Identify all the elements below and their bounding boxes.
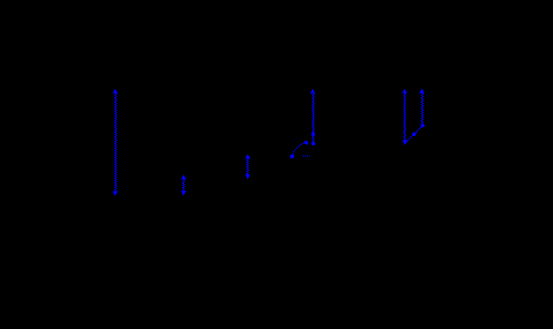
dotted tick row	[303, 155, 310, 157]
arrow A long vertical double-headed	[113, 89, 118, 196]
curved double-headed arrow	[290, 141, 310, 159]
arrow C vertical double-headed	[245, 154, 250, 179]
arrow B short vertical double-headed	[181, 175, 186, 196]
arrow F vertical + diagonal with dots	[405, 88, 425, 143]
arrow E vertical	[402, 89, 407, 146]
arrow D vertical with dots	[310, 89, 315, 146]
